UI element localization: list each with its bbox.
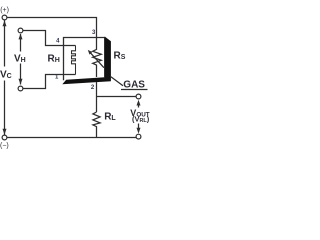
terminal VH top: [18, 28, 23, 33]
wire pin 2 down: [96, 82, 98, 112]
wire top rail to pin 3: [7, 18, 97, 38]
terminal (+): [2, 15, 7, 20]
resistor RS variable: [93, 38, 102, 78]
terminal VOUT top: [136, 94, 141, 99]
wire left rail lower: [4, 81, 6, 136]
RS arrow: [90, 53, 104, 68]
svg-text:(+): (+): [0, 7, 9, 14]
svg-text:GAS: GAS: [123, 80, 145, 91]
VC arrow up: [3, 21, 7, 27]
sensor front face: [64, 38, 105, 81]
wire VOUT measure lower: [138, 124, 140, 129]
VOUT arrow up: [137, 100, 141, 106]
wire VH bottom to pin 1: [23, 75, 76, 89]
GAS pointer: [111, 77, 123, 86]
wire VH measure upper: [20, 34, 22, 52]
VOUT arrow down: [137, 128, 141, 134]
wire left rail upper: [4, 20, 6, 67]
wire VOUT measure upper: [138, 104, 140, 108]
wire VH top to pin 4: [23, 31, 76, 46]
wire VH measure lower: [20, 64, 22, 85]
wire to VOUT terminal: [97, 96, 137, 98]
terminal VH bottom: [18, 86, 23, 91]
VH arrow up: [19, 34, 23, 40]
resistor RH heater coil: [72, 46, 76, 75]
terminal (-): [2, 135, 7, 140]
terminal VOUT bottom: [136, 134, 141, 139]
resistor RL: [93, 112, 100, 138]
wire bottom rail: [7, 137, 136, 139]
svg-text:(−): (−): [0, 143, 9, 150]
VC arrow down: [3, 129, 7, 135]
sensor body slab: [62, 37, 111, 85]
VH arrow down: [19, 79, 23, 85]
